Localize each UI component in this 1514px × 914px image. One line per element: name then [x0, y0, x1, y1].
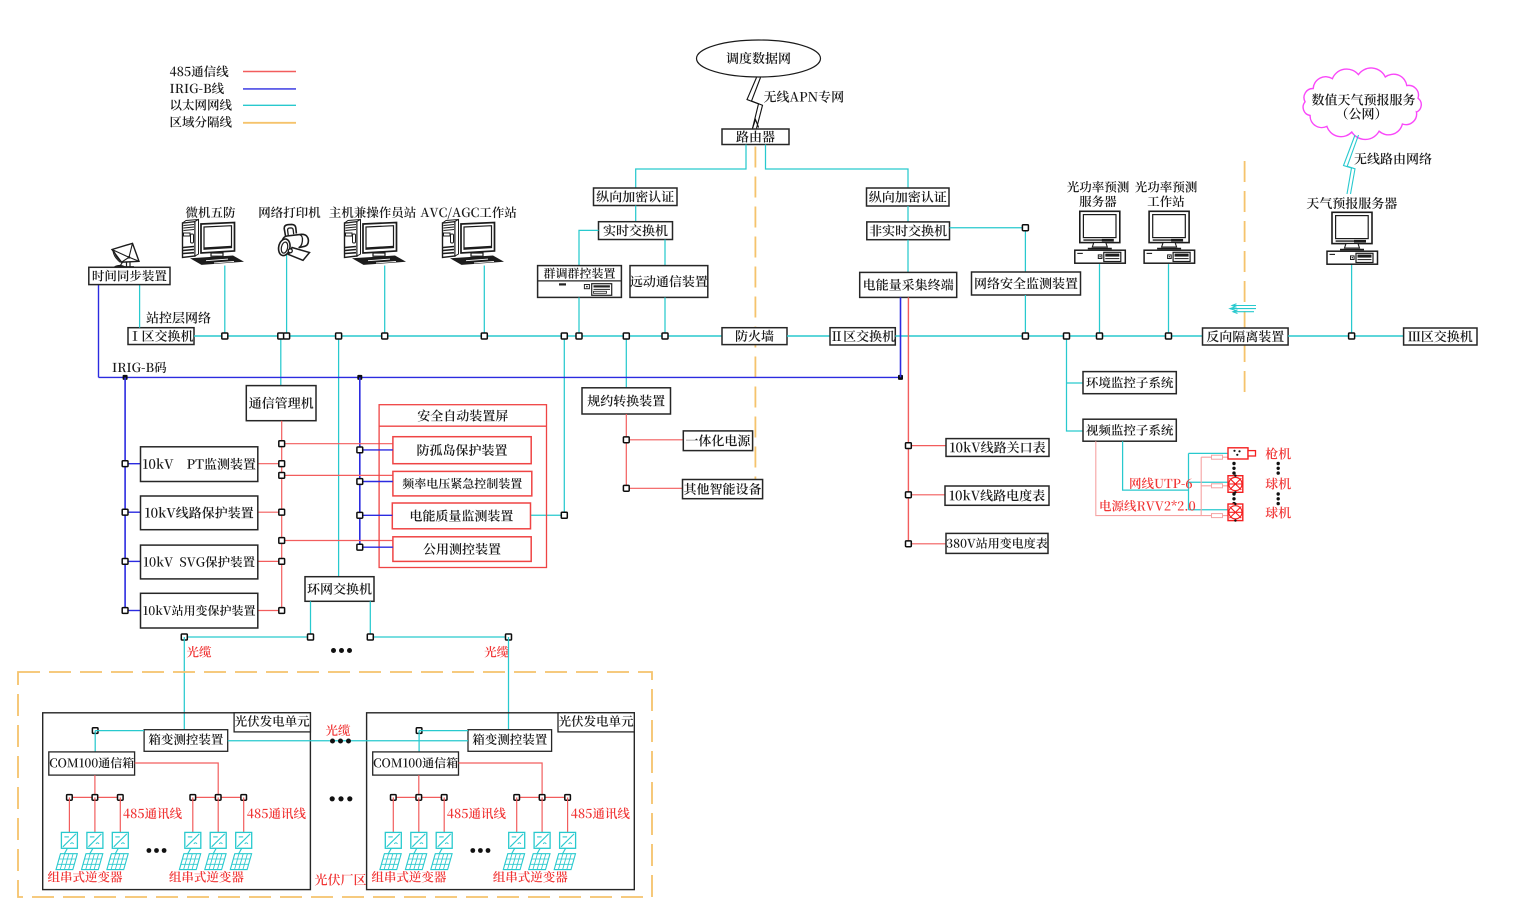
red trunk node squares [279, 441, 285, 614]
red branch to gateway meter [908, 445, 946, 447]
wire cluster ctrl to bus [578, 297, 580, 336]
anti-islanding protection box [393, 437, 531, 464]
protocol red node squares [623, 437, 629, 491]
PV plant dashed border [18, 672, 652, 897]
wire power quality elbow drop [531, 336, 565, 515]
power prediction server label [1067, 181, 1129, 193]
meter red node squares [906, 443, 912, 547]
wire net monitor to bus [1024, 295, 1026, 336]
PV unit 2 inverter drop 3 [443, 797, 445, 832]
dispatch data network ellipse [697, 40, 821, 77]
UTP wire from video box [1123, 441, 1189, 490]
zone divider dashed line left [754, 147, 756, 490]
PV unit 1 485 bus group1 [69, 796, 120, 798]
UTP branch dome camera 2 [1189, 509, 1229, 511]
PV unit 2 inverter label 2 [493, 871, 567, 883]
wire printer to bus [286, 255, 288, 337]
PV unit 2 inverter dots [470, 848, 490, 853]
wujifang PC icon [183, 220, 245, 265]
wire telecontrol to bus [664, 297, 666, 336]
wire protocol converter drop [625, 336, 627, 388]
PV unit 2 solar panel 3 [431, 854, 452, 870]
PV unit 1 solar panel 5 [205, 854, 226, 870]
PV unit 2 panel link 1 [388, 848, 391, 853]
blue stub freq ctrl [360, 481, 393, 483]
10kV station transformer protection box [141, 593, 258, 628]
PV unit 2 485 label 1 [447, 807, 506, 819]
zone II bus wire [895, 335, 1202, 337]
blue stub line-protect box [125, 511, 140, 513]
power fuse 3 [1212, 514, 1223, 518]
IRIG-B from energy terminal [900, 297, 902, 377]
wire operator PC to bus [384, 266, 386, 337]
power quality monitor box [392, 503, 530, 529]
red stub SVG box [258, 560, 282, 562]
blue trunk node squares [122, 461, 128, 614]
10kV line energy meter box [945, 486, 1049, 505]
PV unit 2 panel link 4 [512, 848, 515, 853]
non-realtime switch box [867, 222, 950, 240]
camera dots column 1 [1232, 462, 1235, 475]
other smart devices box [683, 480, 763, 499]
network security monitor box [972, 272, 1081, 295]
satellite dish icon [112, 243, 139, 268]
PV unit 1 panel link 1 [64, 848, 67, 853]
wire comm manager drop [280, 336, 282, 386]
wujifang PC label [186, 206, 235, 218]
printer icon [277, 224, 309, 260]
PV unit 1 solar panel 4 [179, 854, 200, 870]
PV unit 2 string inverter 4 [509, 832, 525, 848]
blue trunk2 node squares [357, 447, 363, 550]
PV plant label [315, 874, 366, 886]
legend ethernet line [171, 99, 296, 111]
right encryption auth box [867, 188, 950, 206]
fiber label left [187, 646, 211, 658]
legend zone divider line [170, 116, 296, 128]
operator PC label [329, 206, 416, 218]
PV unit 2 cyan elbow square [416, 728, 468, 752]
PV unit 2 string inverter 6 [560, 832, 576, 848]
PV unit 2 inverter drop 4 [516, 797, 518, 832]
red branch to common measure box [282, 540, 393, 542]
left encryption auth box [594, 188, 678, 206]
safety auto device panel outer box [379, 405, 546, 568]
freq voltage emergency control box [393, 471, 532, 496]
PV unit 2 inverter label 1 [372, 871, 446, 883]
PV unit 2 box [367, 713, 635, 890]
PV unit 2 inverter drop 2 [418, 797, 420, 832]
zone III bus wire [1288, 335, 1404, 337]
power line label [1100, 500, 1195, 512]
energy acquisition terminal box [860, 272, 957, 297]
PV unit 1 string inverter 1 [61, 832, 77, 848]
AVC AGC workstation label [420, 206, 516, 219]
PV unit 2 string inverter 2 [411, 832, 427, 848]
isolation break symbol [1230, 304, 1256, 314]
PV unit 2 COM100 comm box [373, 752, 459, 775]
PV unit 1 COM100 comm box [49, 752, 135, 775]
dome camera 2 label [1266, 507, 1291, 519]
wire realtime switch to cluster ctrl [579, 230, 599, 265]
PV unit 1 panel link 5 [213, 848, 216, 853]
legend 485 comm line [170, 65, 296, 77]
gun camera icon [1228, 448, 1256, 459]
PV unit 1 red wire COM100 right [135, 763, 219, 797]
red branch to other smart devices [626, 487, 682, 489]
wire nonrealtime switch to net monitor elbow [950, 228, 1026, 272]
red trunk vertical [281, 421, 283, 611]
red stub station-transformer box [258, 610, 282, 612]
PV unit 2 inverter drop 5 [541, 797, 543, 832]
PV unit 2 485 node squares [391, 795, 571, 801]
PV unit 2 panel link 2 [414, 848, 417, 853]
blue stub SVG box [125, 560, 140, 562]
zone I switch box [128, 328, 194, 345]
fiber middle dots [330, 739, 351, 744]
PV unit 2 solar panel 2 [405, 854, 426, 870]
PV unit 2 inverter drop 6 [567, 797, 569, 832]
wire router to left encryption [636, 145, 746, 189]
PV unit 2 string inverter 3 [436, 832, 452, 848]
red stub PT box [258, 463, 282, 465]
power fuse 1 [1212, 455, 1223, 459]
fiber horizontal right [370, 636, 508, 638]
elbow node square [1022, 225, 1028, 231]
PV unit 1 inverter drop 4 [192, 797, 194, 832]
PV unit 2 485 bus group2 [517, 796, 568, 798]
zone III switch box [1404, 328, 1477, 345]
printer label [259, 206, 320, 218]
power fuse 2 [1212, 484, 1223, 488]
wire router to right encryption [766, 145, 909, 189]
AVC AGC workstation icon [443, 220, 505, 265]
red branch to freq ctrl box [282, 474, 393, 476]
PV unit 2 solar panel 1 [380, 854, 401, 870]
zone divider dashed line right [1244, 161, 1246, 393]
weather server PC [1327, 212, 1378, 264]
camera dots column 2 [1232, 492, 1235, 505]
PV unit 2 485 label 2 [571, 807, 630, 819]
wire router-encryption-switch vertical right [907, 206, 909, 222]
wire time sync IRIG-B down [98, 285, 100, 378]
PV unit 1 inverter dots [147, 848, 167, 853]
PV unit 1 inverter drop 2 [94, 797, 96, 832]
PV unit 1 inverter label 2 [169, 871, 243, 883]
gun camera label [1265, 447, 1290, 459]
PV unit 2 string inverter 5 [534, 832, 550, 848]
fiber label middle [326, 724, 350, 736]
PV unit 1 solar panel 3 [107, 854, 128, 870]
wire weather server to bus [1351, 264, 1353, 336]
power trunk vertical [1200, 457, 1202, 515]
time sync device box [89, 267, 170, 284]
red branch to integrated power [626, 439, 683, 441]
10kV SVG protection box [141, 545, 258, 579]
UTP label [1130, 477, 1192, 489]
PV unit 1 cyan elbow square [92, 728, 144, 752]
PV unit 2 inverter drop 1 [392, 797, 394, 832]
power wire from video box [1096, 441, 1228, 515]
PV unit 1 panel link 4 [188, 848, 191, 853]
bus node squares [222, 333, 1355, 339]
realtime switch box [599, 222, 673, 240]
weather server label [1307, 197, 1397, 209]
power prediction workstation label [1135, 181, 1197, 193]
PV unit 2 solar panel 6 [554, 854, 575, 870]
wire time sync to zone I switch [139, 285, 141, 328]
fiber drop to unit1 [183, 637, 185, 730]
PV unit 2 solar panel 4 [503, 854, 524, 870]
PV unit 1 label box [234, 713, 310, 732]
legend IRIG-B line [170, 82, 296, 94]
PV unit 1 inverter drop 3 [119, 797, 121, 832]
PV unit 1 485 label 1 [123, 807, 182, 819]
PV unit 2 485 bus group1 [393, 796, 444, 798]
fiber wire between box transformers [228, 740, 468, 742]
PV unit 1 panel link 2 [90, 848, 93, 853]
wire AVC PC to bus [483, 266, 485, 337]
PV unit 1 panel link 3 [115, 848, 118, 853]
blue stub PT box [125, 463, 140, 465]
red stub line-protect box [258, 511, 282, 513]
PV unit 2 panel link 5 [537, 848, 540, 853]
PV unit 1 inverter drop 1 [68, 797, 70, 832]
red branch to 380V meter [908, 543, 946, 545]
PV unit 1 inverter drop 5 [217, 797, 219, 832]
10kV line gateway meter box [946, 439, 1049, 457]
power branch gun camera [1201, 456, 1228, 458]
fiber node squares [181, 634, 511, 640]
public weather cloud [1303, 68, 1421, 139]
PV unit 1 485 label 2 [247, 807, 306, 819]
zone II switch box [830, 328, 895, 345]
label dots column 1 [1277, 462, 1280, 475]
PV unit 1 485 node squares [67, 795, 247, 801]
wire env branch [1067, 382, 1084, 384]
PV unit 1 panel link 6 [239, 848, 242, 853]
video monitor subsystem box [1083, 419, 1176, 441]
PV unit 1 box-transformer monitor box [144, 730, 228, 752]
blue stub islanding [360, 449, 393, 451]
wire env video drop [1067, 336, 1084, 431]
protocol converter box [582, 388, 671, 414]
reverse isolation device box [1203, 328, 1289, 345]
red branch to islanding box [282, 443, 393, 445]
environment monitor subsystem box [1083, 372, 1176, 394]
blue stub power quality [360, 514, 393, 516]
wire power predict workstation to bus [1168, 264, 1170, 336]
UTP trunk vertical [1188, 453, 1190, 509]
cluster control device box [538, 266, 622, 298]
power prediction workstation PC [1144, 211, 1195, 263]
IRIG-B junction dots [123, 375, 903, 380]
ring network switch box [305, 577, 374, 602]
PV unit 1 red wire COM100 down [94, 775, 96, 797]
UTP branch dome camera 1 [1189, 481, 1229, 483]
dome camera 1 icon [1228, 475, 1243, 494]
fiber horizontal left [184, 636, 310, 638]
IRIG-B trunk 1 vertical [124, 377, 126, 610]
common measure control box [393, 537, 531, 562]
IRIG-B horizontal wire [99, 376, 901, 378]
router box [722, 129, 789, 145]
IRIG-B label [113, 362, 167, 373]
wire nonrealtime switch to energy terminal [907, 240, 909, 273]
PV unit 1 string inverter 6 [236, 832, 252, 848]
fiber drop to unit2 [508, 637, 510, 730]
wire realtime switch to telecontrol [664, 240, 666, 266]
red drop from energy terminal [907, 297, 909, 543]
PV unit 1 box [43, 713, 311, 890]
PV unit 1 solar panel 6 [230, 854, 251, 870]
wireless APN label [764, 90, 843, 102]
PV unit 2 red wire COM100 down [418, 775, 420, 797]
bus wire firewall to zone II switch [787, 335, 830, 337]
PV unit 1 485 bus group2 [193, 796, 244, 798]
PV unit 2 string inverter 1 [385, 832, 401, 848]
wireless router network label [1354, 153, 1431, 165]
10kV PT monitor box [141, 447, 258, 482]
PV unit 1 string inverter 4 [185, 832, 201, 848]
10kV line protection box [141, 496, 258, 530]
wire power predict server to bus [1099, 264, 1101, 336]
380V station transformer meter box [946, 533, 1048, 553]
wireless router lightning bolt [1344, 135, 1359, 194]
integrated power box [683, 431, 752, 451]
firewall box [722, 328, 787, 345]
telecontrol comm device box [630, 266, 708, 298]
PV unit 2 panel link 6 [563, 848, 566, 853]
power branch dome camera 1 [1201, 485, 1228, 487]
PV unit 2 red wire COM100 right [459, 763, 543, 797]
PV unit 2 solar panel 5 [529, 854, 550, 870]
IRIG-B trunk 2 vertical [359, 377, 361, 547]
label dots column 2 [1277, 492, 1280, 505]
fiber label right [485, 646, 509, 658]
dome camera 1 label [1266, 478, 1291, 490]
gap dots at 485 level [330, 796, 353, 801]
wire wujifang PC to bus [224, 266, 226, 337]
fiber wire ringnet right down [369, 601, 371, 637]
PV unit 1 inverter drop 6 [243, 797, 245, 832]
comm manager box [246, 386, 316, 421]
dome camera 2 icon [1228, 503, 1243, 522]
zone I bus wire [194, 335, 722, 337]
PV unit 2 panel link 3 [439, 848, 442, 853]
PV unit 1 solar panel 1 [56, 854, 77, 870]
blue stub station-transformer box [125, 610, 140, 612]
power quality right elbow node [561, 512, 567, 518]
PV unit 1 inverter label 1 [48, 871, 122, 883]
PV unit 1 string inverter 2 [87, 832, 103, 848]
PV unit 2 box-transformer monitor box [468, 730, 552, 752]
fiber trunk dots [331, 648, 352, 653]
red drop from protocol converter [625, 414, 627, 488]
power prediction server PC [1075, 211, 1126, 263]
wireless APN lightning bolt [747, 78, 763, 129]
blue stub common measure [360, 546, 393, 548]
PV unit 1 solar panel 2 [82, 854, 103, 870]
UTP branch gun camera [1189, 452, 1229, 454]
wire ringnet switch drop [338, 336, 340, 577]
fiber wire ringnet left down [310, 601, 312, 637]
red branch to line meter [908, 494, 945, 496]
PV unit 1 string inverter 3 [112, 832, 128, 848]
PV unit 2 label box [558, 713, 634, 732]
station layer network label [146, 312, 210, 324]
wire encryption to realtime switch [635, 206, 637, 222]
operator PC icon [345, 220, 407, 265]
PV unit 1 string inverter 5 [210, 832, 226, 848]
